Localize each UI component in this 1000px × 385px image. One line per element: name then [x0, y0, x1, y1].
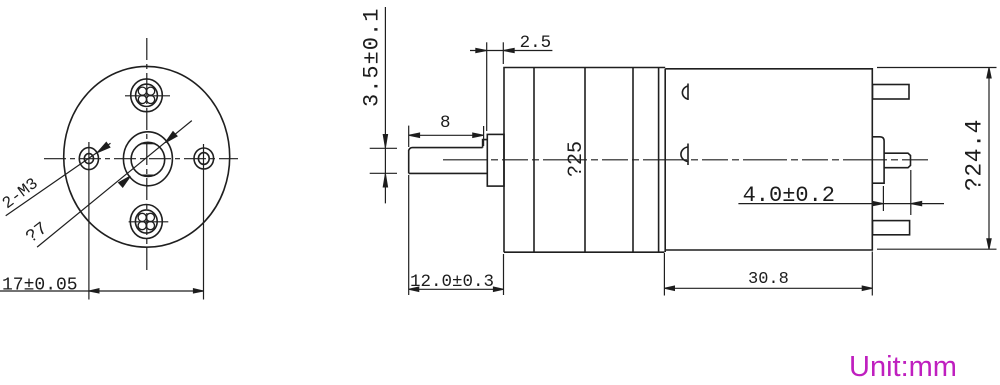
output shaft left edge — [408, 150, 410, 173]
Ø7 arrowhead NE pointing SW — [165, 132, 177, 143]
dimension 4.0 line — [738, 203, 944, 205]
dimension 8 line — [409, 134, 484, 136]
dimension 17±0.05 line — [0, 290, 204, 292]
top screw hole cross recess — [138, 87, 154, 103]
dimension 30.8 left extension — [663, 253, 665, 296]
motor body outline — [665, 69, 872, 252]
Ø7 arrowhead SW pointing NE — [119, 176, 131, 187]
dimension 8 left extension (shaft left edge up) — [408, 126, 410, 147]
dimension 12.0 right extension — [503, 254, 505, 295]
dimension Ø7 leader line — [37, 121, 192, 248]
shaft collar step — [483, 140, 488, 148]
30.8 arrow right — [862, 286, 872, 291]
svg-text:Unit:mm: Unit:mm — [849, 351, 957, 383]
2.5 arrow pointing right — [476, 48, 487, 52]
24.4 arrow down — [987, 239, 991, 250]
front view: gearbox face outline circle — [64, 66, 230, 247]
2.5 right extension line (gearbox face) — [502, 42, 504, 64]
8 arrow right — [473, 133, 484, 138]
output shaft top edge — [409, 148, 483, 151]
svg-text:?24.4: ?24.4 — [962, 119, 988, 191]
svg-text:2.5: 2.5 — [520, 33, 552, 53]
bottom hole crosshair — [129, 221, 169, 223]
left hole vertical line + extension to 17 dim — [88, 142, 90, 300]
24.4 arrow up — [987, 68, 991, 79]
dimension 24.4 top extension line — [877, 67, 997, 69]
bottom screw hole inner ring — [135, 210, 157, 233]
top screw hole M3 outer — [131, 79, 163, 112]
gearbox right edge — [658, 68, 660, 253]
left small hole inner — [84, 154, 93, 164]
motor vent mark lower — [681, 144, 688, 166]
dimension 30.8 line — [664, 287, 872, 289]
svg-text:12.0±0.3: 12.0±0.3 — [410, 272, 494, 292]
dimension 2.5 line — [470, 50, 552, 52]
side view centerline — [443, 159, 928, 161]
rear shaft stub — [884, 153, 910, 168]
12.0 arrow left — [409, 287, 419, 292]
8 arrow left — [409, 133, 420, 138]
top screw hole inner ring — [136, 84, 158, 106]
dimension 12.0 line — [409, 288, 504, 290]
4.0 extension line mid — [882, 186, 884, 211]
center shaft hole inner circle — [131, 142, 165, 176]
dimension 8 right extension — [483, 126, 485, 146]
gearbox internal line 2 — [584, 68, 586, 253]
shaft hole bottom flat — [141, 174, 155, 176]
30.8 arrow left — [664, 286, 674, 291]
bottom screw hole cross recess — [138, 213, 154, 229]
right small hole inner — [198, 153, 209, 165]
3.5 bottom extension line — [370, 172, 397, 174]
svg-text:17±0.05: 17±0.05 — [2, 276, 78, 296]
gearbox internal line 1 — [533, 68, 535, 253]
bottom screw hole M3 outer — [130, 205, 162, 239]
dimension 3.5 vertical line — [384, 7, 386, 203]
right small hole outer — [194, 148, 214, 169]
gearbox internal line 3 — [632, 68, 634, 253]
2.5 arrow pointing left — [503, 48, 514, 52]
svg-text:3.5±0.1: 3.5±0.1 — [360, 8, 385, 107]
3.5 arrow pointing up — [383, 174, 387, 187]
17 dim arrow left — [89, 289, 99, 293]
top hole crosshair — [125, 95, 170, 97]
4.0 arrow pointing left — [911, 201, 922, 205]
4.0 extension line right — [910, 170, 912, 215]
3.5 top extension line — [370, 147, 397, 149]
motor vent mark upper — [682, 84, 688, 101]
svg-text:?25: ?25 — [565, 141, 588, 177]
svg-text:?7: ?7 — [23, 219, 52, 248]
2-M3 leader arrowhead — [98, 142, 110, 152]
rear bearing bushing — [873, 137, 885, 183]
2.5 left extension line (boss face) — [486, 42, 488, 131]
dimension 12.0 left extension (shaft end) — [408, 175, 410, 295]
dimension 30.8 right extension — [871, 252, 873, 296]
left small hole outer — [79, 148, 98, 170]
12.0 arrow right — [493, 287, 503, 292]
2-M3 leader line — [6, 143, 111, 215]
center hole boss Ø7 outer circle — [123, 132, 172, 186]
horizontal centerline — [44, 158, 238, 160]
dimension 24.4 vertical line — [988, 68, 990, 250]
bottom terminal — [873, 221, 910, 235]
svg-text:2-M3: 2-M3 — [0, 174, 42, 213]
vertical centerline — [146, 38, 148, 272]
svg-text:4.0±0.2: 4.0±0.2 — [743, 183, 835, 208]
right hole vertical line + extension to 17 dim — [203, 144, 205, 300]
svg-text:8: 8 — [440, 113, 451, 133]
svg-text:30.8: 30.8 — [748, 270, 789, 289]
output shaft bottom edge — [409, 172, 488, 174]
dimension 24.4 bottom extension line — [877, 248, 997, 250]
top terminal — [873, 85, 910, 100]
4.0 arrow pointing right — [873, 201, 884, 205]
shaft hole top flat — [141, 143, 155, 145]
3.5 arrow pointing down — [383, 135, 387, 148]
17 dim arrow right — [193, 289, 203, 293]
gearbox body outline — [504, 68, 665, 253]
front boss rectangle — [487, 134, 504, 186]
